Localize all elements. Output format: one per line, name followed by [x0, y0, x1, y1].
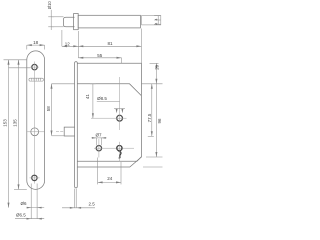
svg-text:153: 153: [2, 119, 7, 127]
svg-text:Ø6.5: Ø6.5: [16, 212, 26, 217]
svg-text:18: 18: [33, 40, 39, 45]
svg-text:12: 12: [65, 41, 71, 46]
svg-text:2.5: 2.5: [89, 202, 96, 207]
svg-text:55: 55: [97, 53, 103, 58]
svg-text:77.5: 77.5: [147, 113, 152, 122]
svg-text:58: 58: [46, 106, 51, 112]
svg-text:135: 135: [12, 119, 17, 127]
svg-text:24: 24: [107, 176, 113, 181]
svg-text:4: 4: [155, 23, 159, 25]
svg-text:Ø7: Ø7: [95, 133, 102, 138]
svg-text:Ø8.5: Ø8.5: [97, 96, 107, 101]
svg-text:Ø6: Ø6: [20, 201, 27, 206]
svg-text:81: 81: [107, 41, 113, 46]
svg-text:29: 29: [154, 64, 159, 70]
svg-text:Ø10: Ø10: [47, 1, 52, 9]
svg-text:4: 4: [155, 19, 159, 21]
svg-text:41: 41: [85, 94, 90, 100]
svg-text:96: 96: [157, 118, 162, 124]
